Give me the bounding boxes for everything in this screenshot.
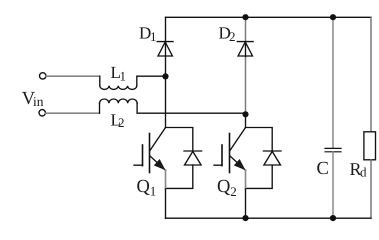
svg-text:Q: Q	[137, 177, 151, 197]
terminal bottom (Vin -)	[39, 110, 45, 116]
transistor Q1 (IGBT)	[134, 128, 166, 173]
junction node B: L2 / D2 / Q2	[242, 111, 248, 117]
svg-text:d: d	[360, 165, 367, 180]
wire bottom terminal to L2	[46, 112, 100, 114]
inductor L2	[100, 99, 138, 103]
svg-text:1: 1	[150, 184, 157, 199]
svg-text:in: in	[33, 94, 44, 109]
wire L1 to node A	[137, 76, 166, 86]
wire L2 to node B	[137, 103, 245, 113]
resistor Rd	[364, 132, 376, 160]
terminal top (Vin +)	[40, 73, 46, 79]
junction node: top rail / D2	[242, 14, 248, 20]
freewheel diode of Q2	[246, 128, 282, 189]
resistor Rd branch top wire	[370, 17, 372, 132]
diode D2 branch wire	[245, 17, 247, 41]
svg-text:C: C	[317, 159, 329, 179]
svg-text:2: 2	[118, 115, 125, 130]
wire top terminal to L1	[46, 75, 100, 77]
diode D1 branch wire	[165, 17, 167, 76]
wire Q1 emitter to bottom rail	[165, 170, 167, 189]
svg-text:1: 1	[120, 69, 127, 84]
wire Q2 emitter to bottom rail	[245, 170, 247, 189]
svg-text:2: 2	[230, 184, 237, 199]
top rail	[166, 16, 372, 18]
diode D2	[237, 42, 253, 56]
junction node: bottom rail / Q2 emitter	[242, 215, 248, 221]
bottom rail	[166, 217, 372, 219]
inductor L1	[100, 86, 137, 90]
capacitor C branch bottom wire	[332, 152, 334, 218]
diode D1	[157, 42, 173, 56]
wire node A to Q1 collector	[165, 76, 167, 127]
junction node: bottom rail / C	[330, 215, 336, 221]
svg-text:1: 1	[150, 29, 157, 44]
junction node: top rail / C	[330, 14, 336, 20]
svg-text:2: 2	[229, 29, 236, 44]
capacitor C	[325, 148, 341, 151]
freewheel diode of Q1	[166, 128, 202, 189]
resistor Rd branch bottom wire	[370, 160, 372, 218]
junction node A: L1 / D1 / Q1	[162, 73, 168, 79]
capacitor C branch top wire	[332, 17, 334, 148]
svg-text:Q: Q	[217, 177, 231, 197]
transistor Q2 (IGBT)	[214, 128, 246, 173]
wire node B to Q2 collector	[245, 114, 247, 128]
